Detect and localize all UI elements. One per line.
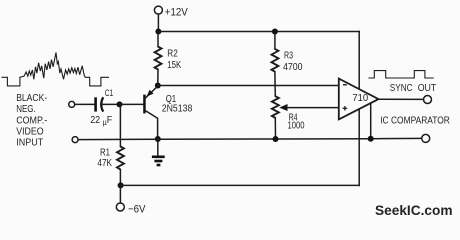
wire ground line left	[78, 138, 158, 140]
wire C1 to base	[102, 103, 143, 105]
terminal +12V	[154, 6, 188, 18]
watermark SeekIC.com	[375, 202, 453, 218]
node +12V rail tee	[155, 29, 161, 35]
wire node down to R1	[119, 104, 121, 146]
op-amp comparator 710	[339, 79, 379, 120]
svg-text:+12V: +12V	[165, 6, 189, 18]
svg-text:IC COMPARATOR: IC COMPARATOR	[380, 115, 450, 127]
wire minus input line	[158, 85, 339, 87]
svg-text:R1: R1	[100, 148, 110, 159]
wire ground line to terminal	[371, 137, 422, 139]
svg-text:NEG.: NEG.	[16, 104, 36, 115]
terminal sync output	[424, 96, 432, 104]
svg-text:47K: 47K	[97, 158, 112, 169]
svg-text:INPUT: INPUT	[16, 138, 43, 149]
svg-text:710: 710	[352, 92, 368, 104]
potentiometer R4 1000	[272, 86, 339, 140]
node R3 top junction	[272, 29, 278, 35]
output waveform	[369, 71, 433, 78]
label sync out	[390, 82, 437, 94]
node emitter junction	[155, 83, 161, 89]
capacitor C1	[90, 88, 113, 127]
input terminal upper	[69, 101, 75, 107]
svg-text:22 µF: 22 µF	[90, 115, 112, 127]
svg-text:VIDEO: VIDEO	[16, 127, 44, 138]
node collector ground junction	[155, 136, 161, 142]
terminal -6V	[116, 203, 146, 216]
svg-text:2N5138: 2N5138	[162, 104, 193, 115]
input label text	[16, 93, 47, 149]
resistor R3 4700	[272, 32, 303, 86]
svg-text:SYNC: SYNC	[390, 82, 413, 94]
wire bottom rail	[121, 184, 360, 186]
wire R1 bottom	[119, 169, 121, 185]
wire ground line middle	[158, 138, 276, 140]
svg-text:COMP.-: COMP.-	[16, 116, 47, 127]
svg-text:R2: R2	[167, 49, 178, 60]
wire ground line right	[276, 138, 371, 140]
svg-text:4700: 4700	[283, 62, 303, 73]
wire right V- vertical	[358, 109, 360, 185]
wire right V+ vertical	[358, 32, 360, 90]
wire stub to -6V terminal	[119, 185, 121, 203]
svg-text:R3: R3	[284, 50, 293, 61]
input video waveform	[2, 53, 109, 86]
wire comparator ground pin	[370, 103, 372, 139]
svg-text:C1: C1	[105, 88, 114, 98]
wire comparator output	[378, 98, 423, 100]
transistor Q1 2N5138	[143, 86, 192, 139]
resistor R1 47K	[97, 147, 124, 170]
node R4 bottom junction	[273, 136, 279, 142]
node R1 bottom junction	[118, 182, 124, 188]
input terminal lower	[72, 137, 78, 143]
ground	[152, 139, 165, 165]
svg-text:15K: 15K	[167, 60, 181, 71]
wire top rail	[158, 31, 359, 33]
label ic comparator	[380, 115, 450, 127]
wire input to C1	[75, 103, 95, 105]
svg-text:SeekIC.com: SeekIC.com	[375, 202, 453, 218]
svg-text:1000: 1000	[288, 121, 305, 132]
node C1 output junction	[117, 101, 123, 107]
svg-text:OUT: OUT	[418, 82, 437, 94]
node comparator ground pin junction	[368, 136, 374, 142]
terminal lower right	[422, 134, 430, 142]
wire +12V stub	[157, 14, 159, 31]
resistor R2 15K	[155, 32, 182, 86]
svg-text:−6V: −6V	[128, 204, 146, 216]
svg-text:BLACK-: BLACK-	[16, 93, 47, 104]
